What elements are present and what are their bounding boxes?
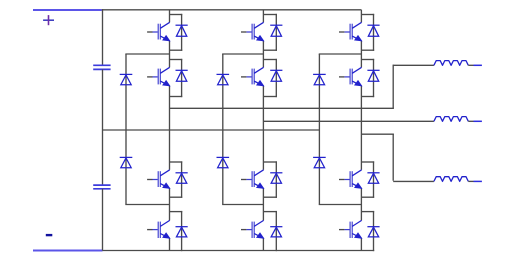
wire gate stub Q6 [241,76,246,78]
diode D5 (antiparallel) [270,25,282,36]
wire gate stub Q12 [339,229,344,231]
diode D10 (antiparallel) [367,70,379,81]
wire phase A output [170,107,394,109]
wire L1 tail stub [468,64,473,66]
transistor Q11 (IGBT) [344,170,361,189]
wire neutral (midpoint) bus [103,129,320,131]
wire phase C to L3 [393,180,434,182]
transistor Q12 (IGBT) [344,220,361,238]
wire emitter bracket Q11 [361,196,374,198]
wire collector bracket Q2 [170,59,183,61]
wire collector bracket Q3 [170,161,183,163]
wire L3 tail stub [468,180,473,182]
clamp diode D13 leg 1 [120,74,133,84]
wire positive DC terminal [33,9,102,11]
transistor Q10 (IGBT) [344,67,361,86]
wire diode branch Q1 [181,14,183,51]
diode D6 (antiparallel) [270,70,282,81]
capacitor C2 [93,185,110,189]
wire emitter bracket Q5 [263,49,277,51]
wire collector bracket Q1 [170,14,183,16]
wire gate stub Q9 [339,31,344,33]
wire diode branch Q7 [275,161,277,198]
plus sign + [43,15,54,25]
wire emitter bracket Q9 [361,49,374,51]
wire gate stub Q11 [339,179,344,181]
wire phase leg 2 spine [262,10,264,251]
wire clamp column leg 1 [125,54,127,205]
wire gate stub Q4 [147,229,152,231]
wire collector bracket Q12 [361,211,374,213]
diode D9 (antiparallel) [367,25,379,36]
wire diode branch Q10 [373,59,375,97]
wire left bus upper segment [102,9,104,65]
wire collector bracket Q8 [263,211,277,213]
wire left bus lower segment [102,189,104,251]
wire gate stub Q10 [339,76,344,78]
wire emitter bracket Q6 [263,96,277,98]
wire clamp column leg 2 [222,54,224,205]
wire collector bracket Q10 [361,59,374,61]
wire gate stub Q1 [147,31,152,33]
wire emitter bracket Q1 [170,49,183,51]
diode D7 (antiparallel) [270,173,282,184]
diode D8 (antiparallel) [270,227,282,237]
minus sign - [46,234,53,236]
transistor Q3 (IGBT) [153,170,170,189]
inductor L2 [434,117,468,122]
capacitor C1 [93,65,110,69]
diode D1 (antiparallel) [176,25,188,36]
clamp diode D17 leg 3 [313,74,326,84]
wire diode branch Q4 [181,211,183,251]
wire emitter bracket Q2 [170,96,183,98]
wire phase leg 3 spine [360,10,362,251]
diode D3 (antiparallel) [176,173,188,184]
wire diode branch Q11 [373,161,375,198]
wire diode branch Q12 [373,211,375,251]
wire emitter bracket Q7 [263,196,277,198]
wire diode branch Q6 [275,59,277,97]
wire left bus middle segment [102,69,104,185]
diode D4 (antiparallel) [176,227,188,237]
wire collector bracket Q4 [170,211,183,213]
wire clamp bottom tee leg 2 [222,204,263,206]
wire gate stub Q2 [147,76,152,78]
wire clamp bottom tee leg 3 [319,204,362,206]
wire gate stub Q7 [241,179,246,181]
diode D11 (antiparallel) [367,173,379,184]
transistor Q6 (IGBT) [246,67,263,86]
wire negative DC terminal [33,250,103,252]
clamp diode D14 leg 1 [120,157,133,167]
wire phase B output [263,120,434,122]
transistor Q2 (IGBT) [153,67,170,86]
clamp diode D16 leg 2 [217,157,230,167]
wire diode branch Q8 [275,211,277,251]
transistor Q9 (IGBT) [344,22,361,41]
clamp diode D15 leg 2 [217,74,230,84]
transistor Q4 (IGBT) [153,220,170,238]
clamp diode D18 leg 3 [313,157,326,167]
wire L3 tail [474,180,482,182]
wire phase A to L1 [393,64,434,66]
wire L2 tail stub [468,120,473,122]
wire clamp column leg 3 [318,54,320,205]
wire top DC+ rail [102,9,362,11]
wire collector bracket Q7 [263,161,277,163]
inductor L1 [434,61,468,66]
wire emitter bracket Q3 [170,196,183,198]
wire diode branch Q9 [373,14,375,51]
diode D12 (antiparallel) [367,227,379,237]
wire collector bracket Q11 [361,161,374,163]
transistor Q1 (IGBT) [153,22,170,41]
wire diode branch Q2 [181,59,183,97]
diode D2 (antiparallel) [176,70,188,81]
wire clamp top tee leg 2 [222,53,263,55]
inductor L3 [434,177,468,182]
wire gate stub Q8 [241,229,246,231]
transistor Q8 (IGBT) [246,220,263,238]
wire L1 tail [474,64,482,66]
wire gate stub Q5 [241,31,246,33]
wire bottom DC- rail [103,250,375,252]
transistor Q5 (IGBT) [246,22,263,41]
wire L2 tail [474,120,482,122]
wire clamp top tee leg 1 [125,53,169,55]
wire collector bracket Q5 [263,14,277,16]
wire phase C output [361,133,394,135]
wire diode branch Q5 [275,14,277,51]
wire clamp bottom tee leg 1 [125,204,169,206]
wire phase leg 1 spine [169,10,171,251]
wire gate stub Q3 [147,179,152,181]
wire phase A riser [392,65,394,109]
wire collector bracket Q6 [263,59,277,61]
wire collector bracket Q9 [361,14,374,16]
wire emitter bracket Q10 [361,96,374,98]
transistor Q7 (IGBT) [246,170,263,189]
wire diode branch Q3 [181,161,183,198]
wire phase C dropper [392,134,394,181]
wire clamp top tee leg 3 [319,53,362,55]
